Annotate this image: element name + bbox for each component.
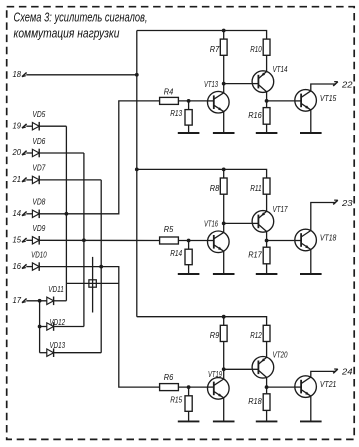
wire R18 top (266, 387, 268, 394)
svg-text:R11: R11 (250, 183, 262, 193)
junction rail/R9 (222, 315, 226, 319)
resistor R13 (185, 110, 192, 126)
pin 24 arrow (333, 369, 338, 373)
pin 23 arrow (333, 200, 338, 204)
svg-text:R5: R5 (164, 224, 174, 234)
svg-text:R17: R17 (248, 250, 262, 260)
label VD5 (32, 110, 45, 119)
resistor R9 (220, 325, 227, 341)
label VD10 (31, 250, 47, 259)
wire pin 14 to diode (26, 213, 32, 215)
wire R6 to base (178, 386, 207, 388)
transistor VT17 (252, 211, 274, 233)
label R4 (164, 87, 174, 97)
wire VD8 row to feed corner (39, 101, 159, 214)
label R14 (170, 248, 182, 258)
label R6 (164, 372, 174, 382)
wire VD12 row (40, 326, 47, 328)
svg-text:VT21: VT21 (320, 379, 337, 389)
wire R15 top (188, 387, 190, 396)
label R18 (248, 396, 262, 406)
svg-text:VD11: VD11 (48, 285, 64, 294)
wire VT16 collector (223, 223, 225, 232)
svg-text:Схема 3: усилитель сигналов,: Схема 3: усилитель сигналов, (14, 11, 148, 25)
svg-text:VT15: VT15 (320, 93, 337, 103)
label VT15 (320, 93, 337, 103)
label R5 (164, 224, 174, 234)
ground VT13 emitter (213, 112, 235, 133)
label R9 (210, 330, 220, 340)
junction pin17 drop / VD12 row (38, 325, 42, 329)
resistor R10 (263, 39, 270, 55)
wire supply rail stage 3 (137, 317, 267, 326)
svg-text:R7: R7 (210, 44, 220, 54)
wire node to VT14 base (224, 83, 252, 85)
label VT16 (204, 219, 218, 229)
wire emitter node to VT21 base (267, 386, 295, 388)
junction bus2/pin15 row (82, 238, 86, 242)
resistor R18 (263, 394, 270, 411)
wire VD13 row (40, 352, 47, 354)
label VD13 (50, 341, 66, 350)
junction node stage 1 (222, 82, 226, 86)
wire VT21 collector to pin 24 (311, 371, 336, 377)
wire VD13 to bus3 end (54, 352, 102, 354)
pin 24 label (341, 367, 353, 377)
transistor VT21 (294, 376, 316, 398)
transistor VT20 (252, 357, 274, 379)
wire pin 21 to diode (26, 179, 32, 181)
junction emitter node stage 3 (265, 385, 269, 389)
resistor R14 (185, 249, 192, 265)
svg-text:R6: R6 (164, 372, 174, 382)
wire R11 to VT17 collector (266, 194, 268, 211)
ground R16 (256, 124, 278, 133)
label R16 (248, 110, 262, 120)
svg-text:VT16: VT16 (204, 219, 218, 229)
wire R5 to base (178, 240, 207, 242)
resistor R17 (263, 247, 270, 264)
svg-text:VD5: VD5 (32, 110, 45, 119)
svg-text:VD12: VD12 (50, 318, 66, 327)
junction pin17 branch (38, 299, 42, 303)
wire VD11 to bus1 end (54, 300, 67, 302)
svg-text:15: 15 (13, 235, 22, 245)
svg-text:VT19: VT19 (208, 369, 222, 379)
diode VD6 (32, 149, 39, 158)
ground VT15 emitter (300, 110, 322, 133)
wire R10 to VT14 collector (266, 55, 268, 71)
ground R14 (178, 265, 200, 274)
svg-text:R10: R10 (250, 44, 262, 54)
label VT19 (208, 369, 222, 379)
svg-text:16: 16 (13, 261, 22, 271)
diode VD10 (32, 262, 39, 271)
wire VT17 emitter (266, 232, 268, 241)
pin 20 label (12, 147, 22, 157)
wire R7 to node (223, 55, 225, 83)
svg-text:VD6: VD6 (32, 137, 45, 146)
wire power bus vertical (136, 31, 138, 317)
wire supply rail stage 1 (137, 31, 267, 40)
pin 20 arrow (22, 151, 27, 155)
label VT14 (273, 64, 288, 74)
wire pin17 drop (39, 301, 41, 353)
svg-text:R12: R12 (250, 330, 262, 340)
title text (14, 11, 148, 41)
wire R8 top (223, 169, 225, 178)
label R12 (250, 330, 262, 340)
resistor R4 (160, 97, 179, 104)
svg-text:R13: R13 (170, 108, 182, 118)
pin 14 arrow (22, 212, 27, 216)
junction power bus / mid rail (135, 168, 139, 172)
wire R13 top (188, 101, 190, 110)
label VT13 (204, 79, 218, 89)
resistor R8 (220, 178, 227, 194)
label R7 (210, 44, 220, 54)
transistor VT19 (207, 378, 229, 400)
label VD11 (48, 285, 64, 294)
wire R4 to base (178, 100, 207, 102)
diode VD8 (32, 210, 39, 219)
pin 19 arrow (22, 124, 27, 128)
wire VT14 emitter (266, 92, 268, 101)
ground VT18 emitter (300, 250, 322, 275)
label VD8 (32, 198, 45, 207)
wire pin 20 to diode (26, 152, 32, 154)
svg-text:VT14: VT14 (273, 64, 288, 74)
svg-text:VT17: VT17 (273, 204, 288, 214)
wire pin 19 to diode (26, 125, 32, 127)
label VT18 (320, 233, 337, 243)
resistor R5 (160, 237, 179, 244)
svg-text:R14: R14 (170, 248, 182, 258)
diode VD9 (32, 236, 39, 245)
wire R12 to VT20 collector (266, 342, 268, 358)
label R10 (250, 44, 262, 54)
wire VT20 emitter (266, 377, 268, 387)
junction R13 tap (187, 99, 191, 103)
svg-text:VD13: VD13 (50, 341, 66, 350)
junction R14 tap (187, 239, 191, 243)
label VT21 (320, 379, 337, 389)
ground VT21 emitter (300, 396, 322, 421)
connector square X1 (89, 280, 96, 287)
wire R16 top (266, 101, 268, 108)
label VD6 (32, 137, 45, 146)
ground R18 (256, 410, 278, 421)
wire node to VT17 base (224, 222, 252, 224)
diode VD11 (47, 297, 54, 306)
wire R8 to node (223, 194, 225, 223)
svg-text:VD9: VD9 (32, 224, 45, 233)
svg-text:24: 24 (341, 367, 353, 377)
wire R17 top (266, 241, 268, 248)
svg-text:коммутация нагрузки: коммутация нагрузки (14, 27, 120, 41)
label VT20 (273, 350, 288, 360)
svg-text:21: 21 (12, 174, 22, 184)
ground R13 (178, 125, 200, 133)
pin 17 label (13, 295, 22, 305)
pin 15 arrow (22, 238, 27, 242)
label R8 (210, 183, 220, 193)
diode VD13 (47, 348, 54, 357)
wire supply rail stage 2 (137, 169, 267, 178)
wire bus2 vertical (83, 153, 85, 327)
svg-text:VD10: VD10 (31, 250, 47, 259)
pin 16 arrow (22, 264, 27, 268)
svg-text:VT18: VT18 (320, 233, 337, 243)
label R11 (250, 183, 262, 193)
pin 22 arrow (333, 82, 338, 86)
svg-text:14: 14 (13, 208, 22, 218)
wire VD10 row to feed corner (39, 267, 159, 388)
wire emitter node to VT15 base (267, 100, 295, 102)
wire VD7 to bus3 (39, 179, 101, 181)
label R13 (170, 108, 182, 118)
junction emitter node stage 2 (265, 239, 269, 243)
ground VT16 emitter (213, 251, 235, 274)
svg-text:VT13: VT13 (204, 79, 218, 89)
resistor R11 (263, 178, 270, 194)
svg-text:R8: R8 (210, 183, 220, 193)
wire emitter node to VT18 base (267, 240, 295, 242)
wire pin18 to power bus (26, 74, 137, 76)
svg-text:R15: R15 (170, 394, 182, 404)
ground R15 (178, 411, 200, 421)
transistor VT18 (294, 229, 316, 251)
label VD12 (50, 318, 66, 327)
svg-text:R4: R4 (164, 87, 174, 97)
pin 23 label (341, 198, 353, 208)
pin 21 label (12, 174, 22, 184)
wire bus1 vertical (65, 126, 67, 301)
wire VT13 collector (223, 84, 225, 93)
wire R9 to node (223, 342, 225, 370)
svg-text:VD7: VD7 (32, 164, 45, 173)
wire pin 15 to diode (26, 239, 32, 241)
resistor R6 (160, 384, 179, 391)
junction emitter node stage 1 (265, 99, 269, 103)
svg-text:22: 22 (341, 79, 353, 89)
junction R15 tap (187, 385, 191, 389)
junction bus1/pin14 row (65, 212, 69, 216)
label R17 (248, 250, 262, 260)
junction rail/R8 (222, 168, 226, 172)
svg-text:VT20: VT20 (273, 350, 288, 360)
svg-text:23: 23 (341, 198, 353, 208)
pin 16 label (13, 261, 22, 271)
wire R7 top (223, 31, 225, 40)
label VD7 (32, 164, 45, 173)
diode VD7 (32, 176, 39, 185)
pin 18 arrow (22, 73, 27, 77)
svg-text:R16: R16 (248, 110, 262, 120)
ground VT19 emitter (213, 398, 235, 422)
transistor VT14 (252, 71, 274, 93)
label R15 (170, 394, 182, 404)
transistor VT16 (207, 231, 229, 253)
svg-text:19: 19 (13, 120, 22, 130)
junction rail/R7 (222, 29, 226, 33)
transistor VT15 (294, 90, 316, 112)
junction bus3/pin16 row (99, 265, 103, 269)
wire jumper bus1 to feed (66, 282, 118, 284)
wire VD9 row to R5 (39, 239, 159, 241)
pin 19 label (13, 120, 22, 130)
wire VD5 to bus1 (39, 125, 66, 127)
wire VT19 collector (223, 369, 225, 379)
pin 15 label (13, 235, 22, 245)
ground R17 (256, 264, 278, 274)
pin 14 label (13, 208, 22, 218)
resistor R7 (220, 39, 227, 55)
diode VD12 (47, 322, 54, 331)
resistor R16 (263, 108, 270, 125)
svg-text:20: 20 (12, 147, 22, 157)
wire R14 top (188, 241, 190, 250)
wire VD6 to bus2 (39, 152, 84, 154)
wire VT18 collector to pin 23 (311, 203, 336, 231)
label VD9 (32, 224, 45, 233)
wire pin17 (26, 300, 47, 302)
wire VT15 collector to pin 22 (311, 84, 336, 91)
wire R9 top (223, 317, 225, 326)
jumper strut (92, 257, 94, 313)
svg-text:R9: R9 (210, 330, 220, 340)
svg-text:18: 18 (13, 69, 22, 79)
transistor VT13 (207, 91, 229, 113)
junction node stage 2 (222, 222, 226, 226)
pin 21 arrow (22, 178, 27, 182)
pin 22 label (341, 79, 353, 89)
wire VD12 to bus2 end (54, 326, 84, 328)
svg-text:17: 17 (13, 295, 22, 305)
resistor R15 (185, 396, 192, 412)
pin 17 arrow (22, 299, 27, 303)
junction node stage 3 (222, 367, 226, 371)
pin 18 label (13, 69, 22, 79)
wire bus3 vertical (100, 180, 102, 353)
svg-text:R18: R18 (248, 396, 262, 406)
diode VD5 (32, 122, 39, 131)
svg-text:VD8: VD8 (32, 198, 45, 207)
junction pin18/bus (135, 73, 139, 77)
wire node to VT20 base (224, 368, 252, 370)
label VT17 (273, 204, 288, 214)
wire pin 16 to diode (26, 266, 32, 268)
resistor R12 (263, 325, 270, 341)
